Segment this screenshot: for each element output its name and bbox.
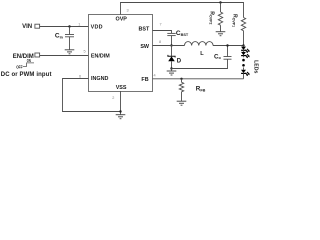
label ROVP1 (232, 14, 238, 27)
node SW CBST D junction (170, 44, 172, 46)
svg-text:7: 7 (159, 23, 161, 27)
ground for VSS (116, 115, 126, 119)
svg-text:SW: SW (140, 44, 150, 50)
capacitor Cin (65, 27, 74, 50)
LED D3 (241, 70, 250, 79)
ground for RFB (177, 101, 187, 105)
wire SW rail (153, 45, 185, 47)
terminal EN/DIM input (35, 53, 40, 57)
op-amp U1 IC body (89, 15, 153, 92)
resistor ROVP1 (241, 18, 245, 46)
wire L to output node (213, 45, 244, 47)
wire FB rail (153, 78, 244, 80)
svg-text:D: D (177, 58, 182, 64)
node RFB tap (180, 78, 182, 80)
resistor ROVP2 (218, 3, 222, 32)
svg-text:EN/DIM: EN/DIM (91, 53, 110, 59)
diode D (168, 46, 175, 69)
label LEDs (253, 60, 259, 73)
label ROVP2 (208, 11, 214, 24)
svg-text:8: 8 (159, 40, 161, 44)
ground for D and Co (167, 71, 177, 75)
node VSS INGND junction (119, 110, 121, 112)
svg-text:VSS: VSS (116, 85, 127, 91)
svg-text:OVP: OVP (116, 16, 128, 22)
wire OVP to divider (121, 3, 244, 18)
svg-text:ON: ON (27, 58, 32, 63)
node diode ground junction (170, 67, 172, 69)
wire gnd stub (171, 69, 173, 72)
node Co tap (226, 44, 228, 46)
svg-text:OFF: OFF (16, 65, 23, 70)
LED D1 (241, 47, 250, 53)
LED D2 (241, 52, 250, 58)
wire BST (153, 31, 172, 34)
wire VSS down (120, 91, 122, 115)
svg-text:DC or PWM input: DC or PWM input (1, 72, 52, 78)
resistor RFB (179, 79, 183, 101)
svg-text:2: 2 (112, 96, 114, 100)
svg-text:6: 6 (79, 74, 81, 78)
node output LED junction (242, 44, 244, 46)
wire EN/DIM to pin (40, 55, 89, 57)
ellipsis dots LED string (242, 59, 245, 62)
waveform enable step (23, 63, 34, 67)
node Cin tap junction (68, 25, 70, 27)
svg-text:5: 5 (84, 50, 86, 54)
svg-text:4: 4 (154, 73, 156, 77)
svg-text:INGND: INGND (91, 76, 108, 82)
terminal VIN input (35, 24, 40, 28)
svg-text:1: 1 (78, 22, 80, 26)
wire LED3 top stub (243, 67, 245, 69)
svg-text:3: 3 (127, 9, 129, 13)
svg-text:L: L (200, 51, 204, 57)
inductor L (185, 42, 214, 46)
ground for ROVP2 (216, 32, 226, 36)
capacitor CBST (167, 33, 175, 45)
wire LED node stub (243, 46, 245, 47)
capacitor Co (172, 57, 232, 69)
svg-text:LEDs: LEDs (253, 60, 259, 73)
svg-text:FB: FB (141, 77, 148, 83)
ground for Cin (65, 50, 75, 54)
svg-text:VIN: VIN (22, 24, 32, 30)
svg-text:VDD: VDD (91, 24, 103, 30)
wire INGND return (63, 79, 121, 112)
svg-text:BST: BST (139, 27, 150, 33)
wire Co return (227, 46, 229, 57)
wire VIN to VDD pin (40, 26, 89, 28)
node ROVP2 tap (219, 1, 221, 3)
